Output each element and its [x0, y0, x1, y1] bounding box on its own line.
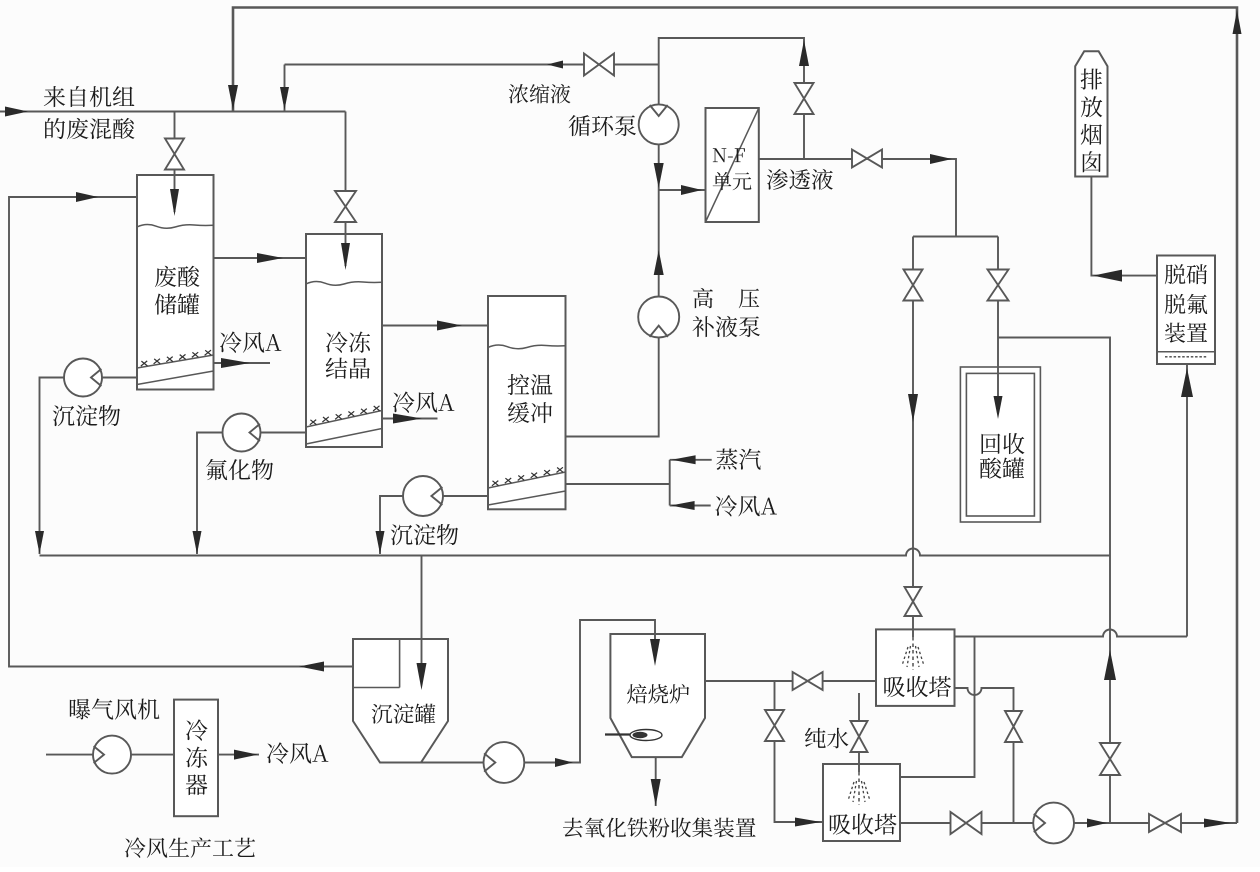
de-NOx bottom separator: [1157, 351, 1215, 353]
wire: inlet into recovery tank: [997, 367, 999, 398]
label 控温: [508, 374, 553, 395]
valve V9 (riser): [1100, 743, 1120, 775]
label 脱氟: [1165, 294, 1207, 314]
valve V14 (bottom header): [951, 812, 982, 834]
burner lance: [605, 733, 632, 735]
label 曝气风机: [70, 698, 159, 719]
wire: absorber offgas to de-NOx unit (hop over riser): [955, 630, 1188, 637]
wire: drop into crystallizer: [345, 112, 347, 267]
wire: cold air A out of tank2: [382, 418, 438, 420]
label 储罐: [155, 294, 199, 315]
arrow feed in: [5, 107, 28, 117]
label 回收: [982, 433, 1025, 454]
wire: inlet into furnace: [654, 634, 656, 645]
arrow supernatant leftward: [299, 662, 324, 672]
label 浓缩液: [509, 84, 571, 104]
valve V8 (to recovery tank): [988, 270, 1009, 301]
arrow pump discharge to furnace: [555, 758, 573, 767]
wire: circulation pump discharge: [658, 145, 660, 191]
wire: up into de-NOx unit: [1186, 364, 1188, 637]
wire: outer recycle loop (right column + top line): [233, 8, 1237, 824]
wire: steam branch: [670, 459, 712, 461]
tank2 lower slope: [306, 429, 382, 445]
wire: inlet dip tube tank1: [174, 175, 176, 212]
valve V2 (concentrate line): [584, 54, 614, 76]
valve V1 (waste-acid tank inlet): [165, 139, 184, 170]
spray nozzle absorber1: [912, 637, 914, 670]
wire: stub into absorber2: [858, 764, 860, 772]
wire: concentrate drop to feed header: [284, 65, 286, 112]
label 循环泵: [569, 115, 636, 136]
label 沉淀物: [53, 405, 120, 426]
label 冷风A: [716, 495, 777, 516]
arrow down recycle into feed line: [228, 85, 238, 110]
label 冷风A: [267, 742, 328, 763]
arrow into recovery tank (inside): [994, 396, 1003, 419]
label 焙烧炉: [627, 684, 689, 704]
unit: N-F membrane unit: [706, 108, 759, 222]
wire: de-NOx to chimney: [1091, 177, 1157, 276]
valve V4 (concentrate recycle): [795, 83, 814, 114]
wire: permeate line: [759, 159, 956, 237]
label 高 压: [693, 288, 759, 308]
arrow into recovery tank: [994, 396, 1003, 419]
liquid level tank3: [488, 345, 566, 349]
wire: cold air A out of tank1: [214, 362, 271, 364]
furnace: 焙烧炉 roasting furnace: [610, 634, 705, 757]
wire: feed into N-F unit: [659, 189, 706, 191]
label 缓冲: [508, 402, 552, 423]
label 吸收塔: [830, 814, 897, 835]
arrow tank2 to tank3: [437, 321, 462, 331]
wire: drop into waste-acid tank: [174, 112, 176, 215]
label 渗透液: [767, 169, 833, 190]
arrow gas into absorber2: [795, 818, 821, 827]
wire: cold air A out: [218, 754, 259, 756]
arrow iron oxide powder down: [651, 779, 661, 806]
label 吸收塔: [884, 676, 951, 697]
wire: sediment down into settler: [421, 556, 423, 691]
wire: crystallizer to buffer tank: [382, 325, 488, 327]
label 冷冻器: [186, 719, 208, 795]
label 沉淀物: [391, 524, 458, 545]
pump 高压补液泵 (high-pressure feed): [638, 297, 679, 338]
arrow permeate right: [930, 154, 952, 164]
arrow into waste-acid tank: [170, 189, 179, 216]
valve V3 (crystallizer inlet): [335, 191, 356, 222]
label 纯水: [805, 728, 848, 749]
label 单元: [713, 172, 752, 190]
wire: iron oxide powder out: [655, 757, 657, 806]
arrow into settler (inside): [417, 663, 427, 690]
arrow into crystallizer: [341, 243, 350, 270]
wire: furnace offgas to absorber1: [705, 680, 876, 682]
arrow steam in: [672, 455, 696, 464]
label 酸罐: [980, 457, 1024, 478]
wire: concentrate return line: [285, 64, 659, 66]
sloped grate tank1: [137, 355, 214, 368]
wire: riser from bottom header to recovery tank: [998, 338, 1110, 824]
tank1 lower slope: [137, 371, 214, 385]
label 冷风A: [393, 391, 454, 412]
unit: 冷冻器 chiller: [174, 700, 218, 817]
arrow into furnace: [650, 639, 660, 666]
label 冷冻: [326, 331, 370, 352]
arrow pump discharge: [1087, 819, 1107, 828]
label 废酸: [155, 266, 200, 287]
pump (settler underflow): [484, 742, 525, 783]
arrow into de-NOx unit: [1181, 368, 1193, 397]
pump (tank3 sediment): [403, 476, 443, 516]
arrow supernatant into tank1: [76, 192, 98, 202]
spray nozzle absorber2: [858, 772, 860, 805]
wire: concentrate loop over N-F: [659, 38, 804, 159]
arrow up to N-F node: [654, 250, 664, 275]
tank: 废酸储罐 waste acid storage: [137, 175, 214, 390]
wire: pure water into absorber2: [858, 693, 860, 764]
pump 循环泵 (circulation): [639, 104, 679, 144]
pump (fluoride): [223, 414, 261, 452]
wire: buffer tank to high-pressure pump: [566, 338, 659, 437]
wire: absorber2 offgas to gas header: [900, 637, 975, 778]
arrow up on recycle riser (top right): [1233, 10, 1242, 34]
de-NOx dashed level: [1165, 356, 1208, 358]
arrow into furnace (inside): [650, 639, 660, 666]
arrow sediment down (left): [35, 531, 44, 554]
arrow tank1 to tank2: [257, 253, 283, 263]
unit: 脱硝脱氟装置 de-NOx/de-F unit: [1157, 256, 1215, 365]
wire: sediment collecting header: [40, 549, 1111, 556]
wire: settler underflow to pump: [421, 762, 484, 764]
arrow into crystallizer (inside): [341, 243, 350, 270]
wire: settler supernatant recycle to tank1: [9, 197, 353, 667]
wire: blower to chiller: [131, 754, 174, 756]
valve V12 (gas to absorber2): [765, 710, 784, 741]
arrow fluoride down: [193, 531, 202, 554]
arrow into recycle riser: [1204, 819, 1231, 828]
label 沉淀罐: [372, 703, 436, 723]
arrow cold air A in: [671, 501, 695, 510]
tower: 吸收塔 absorber 2: [823, 764, 900, 841]
wire: pump up to N-F feed node: [658, 190, 660, 297]
label 氟化物: [206, 459, 273, 480]
tank: 控温缓冲 temperature-controlled buffer: [488, 296, 566, 509]
label 冷风A: [220, 331, 281, 352]
valve V5 (permeate): [852, 150, 882, 168]
arrow up riser: [1104, 650, 1116, 680]
liquid level tank2: [306, 282, 382, 286]
tank: 回收酸罐 recovered acid tank (outer): [960, 367, 1040, 522]
wire: permeate to absorber 1: [912, 237, 914, 630]
liquid level tank1: [137, 225, 213, 229]
blower 曝气风机: [93, 736, 131, 774]
arrow up concentrate recycle: [799, 40, 809, 66]
valve V7 (absorber top): [905, 587, 922, 616]
wire: inlet into settler: [421, 639, 423, 668]
stack: 排放烟囱 discharge chimney: [1075, 51, 1107, 176]
valve V13 (pure water): [851, 721, 868, 752]
settler baffle: [353, 639, 400, 688]
label 冷风生产工艺: [125, 837, 255, 858]
label 排放烟囱: [1081, 69, 1103, 173]
label 脱硝: [1165, 264, 1207, 284]
arrow down from circulation pump: [654, 163, 664, 188]
sloped grate tank2: [306, 411, 382, 428]
arrow into waste-acid tank (inside): [170, 189, 179, 216]
valve V10 (absorber1 drain): [1005, 711, 1022, 742]
label N-F: [713, 148, 745, 162]
valve V6 (to absorber): [904, 270, 923, 301]
wire: steam/cold-air mix into tank3 bottom: [566, 483, 670, 485]
arrow cold air A tank1: [221, 358, 250, 368]
arrow tank3 sediment down: [376, 531, 385, 554]
pump (tank1 sediment): [64, 359, 102, 397]
wire: tank3 sediment to pump and down: [380, 496, 488, 554]
valve V15 (to recycle riser): [1149, 814, 1181, 832]
sloped grate tank3: [488, 472, 566, 488]
arrow into settler: [417, 663, 427, 690]
wire: absorber2 liquor header (bottom): [900, 822, 1237, 824]
arrow concentrate into feed: [280, 87, 289, 110]
N-F diagonal: [706, 108, 759, 222]
wire: cold air A branch: [670, 505, 711, 507]
wire: tank1 overflow to crystallizer: [214, 257, 307, 259]
label 结晶: [326, 358, 370, 379]
wire: inlet dip tube tank2: [345, 234, 347, 266]
tank3 lower slope: [488, 491, 566, 505]
wire: blower suction stub: [46, 754, 93, 756]
wire: tank2 fluoride to pump and down: [197, 433, 306, 555]
arrow into N-F unit: [681, 185, 702, 195]
wire: to roasting furnace: [524, 620, 655, 763]
pump (absorber liquor): [1033, 803, 1074, 844]
valve V11 (gas to absorber1): [793, 672, 823, 690]
arrow cold air A out: [234, 750, 258, 760]
wire: bracket vertical: [669, 460, 671, 506]
label 蒸汽: [716, 449, 760, 470]
wire: stub into absorber1: [912, 629, 914, 637]
wire: permeate split header: [913, 236, 998, 238]
vessel: 沉淀罐 settler: [353, 639, 448, 763]
wire: absorber1 drain (hop over absorber2 gas link): [955, 688, 1014, 823]
label 补液泵: [693, 316, 761, 337]
tower: 吸收塔 absorber 1: [876, 629, 955, 706]
wire: permeate to recovery tank: [997, 237, 999, 397]
label 来自机组: [44, 86, 135, 107]
arrow into chimney line: [1093, 270, 1122, 282]
label 去氧化铁粉收集装置: [563, 817, 756, 837]
wire: waste-acid feed header: [0, 111, 346, 113]
label 的废混酸: [45, 118, 134, 139]
label 装置: [1165, 323, 1207, 343]
wire: gas branch down to absorber2: [775, 681, 824, 822]
arrow down to absorber: [908, 394, 918, 422]
arrow on concentrate line: [547, 61, 563, 69]
tank: 冷冻结晶 freeze crystallizer: [306, 234, 382, 447]
burner flame: [630, 730, 662, 741]
arrow cold air A tank2: [393, 414, 422, 424]
wire: tank1 sediment to pump and down: [40, 378, 138, 555]
tank: 回收酸罐 inner wall: [966, 373, 1034, 516]
